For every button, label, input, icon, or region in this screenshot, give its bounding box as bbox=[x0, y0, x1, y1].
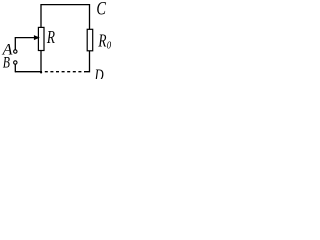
terminal B circle bbox=[14, 61, 17, 64]
wire top rail from R branch to C branch bbox=[41, 5, 90, 30]
wire bottom rail solid segment from B to junction bbox=[15, 71, 42, 73]
resistor R (rheostat body) bbox=[38, 27, 44, 50]
wire below R to bottom rail bbox=[40, 51, 42, 74]
svg-text:R: R bbox=[46, 27, 55, 47]
resistor R0 body bbox=[87, 29, 93, 51]
svg-text:B: B bbox=[3, 55, 10, 72]
wire bottom rail dashed segment bbox=[45, 71, 85, 73]
terminal A circle bbox=[14, 50, 17, 53]
svg-text:0: 0 bbox=[107, 41, 112, 52]
junction dot at node below R bbox=[40, 71, 42, 73]
svg-text:C: C bbox=[96, 0, 106, 20]
wiper arrowhead into R bbox=[34, 35, 40, 40]
wire from terminal A up and right (wiper lead) bbox=[15, 38, 34, 50]
wire below R0 to bottom rail corner D bbox=[84, 51, 90, 72]
svg-text:D: D bbox=[94, 66, 104, 79]
svg-text:R: R bbox=[98, 31, 107, 51]
wire from terminal B down to bottom rail bbox=[14, 64, 16, 72]
